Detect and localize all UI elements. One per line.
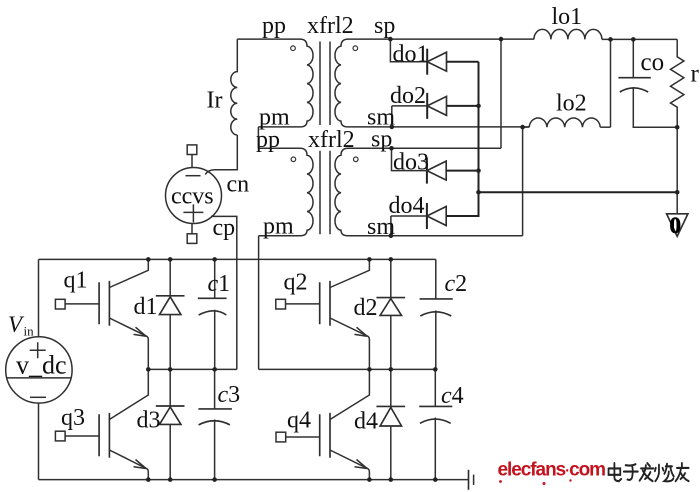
svg-text:ccvs: ccvs: [171, 184, 214, 210]
svg-text:V: V: [8, 312, 25, 337]
svg-text:d3: d3: [137, 408, 161, 434]
svg-text:do3: do3: [393, 149, 429, 175]
svg-text:cn: cn: [227, 171, 250, 197]
svg-text:do1: do1: [393, 41, 429, 67]
svg-text:pp: pp: [262, 13, 286, 39]
svg-text:c2: c2: [445, 271, 468, 297]
svg-text:cp: cp: [213, 215, 236, 241]
svg-text:d4: d4: [354, 409, 378, 435]
svg-text:c3: c3: [218, 382, 241, 408]
svg-text:lo1: lo1: [552, 4, 583, 30]
svg-text:co: co: [641, 49, 665, 76]
svg-text:lo2: lo2: [556, 90, 587, 116]
svg-text:pm: pm: [263, 213, 294, 239]
svg-text:do4: do4: [389, 193, 425, 219]
svg-text:q3: q3: [61, 405, 85, 431]
svg-text:c4: c4: [441, 383, 464, 409]
svg-text:xfrl2: xfrl2: [308, 127, 355, 153]
svg-text:q2: q2: [284, 270, 308, 296]
svg-text:v_dc: v_dc: [16, 351, 67, 380]
svg-text:do2: do2: [390, 83, 426, 109]
svg-text:Ir: Ir: [207, 87, 223, 113]
svg-text:r: r: [691, 61, 700, 88]
svg-text:0: 0: [670, 213, 682, 238]
svg-text:xfrl2: xfrl2: [307, 13, 354, 39]
svg-text:in: in: [24, 324, 35, 339]
svg-text:d1: d1: [134, 294, 158, 320]
svg-text:sp: sp: [371, 126, 392, 152]
svg-text:q4: q4: [287, 408, 311, 434]
svg-text:sp: sp: [374, 13, 395, 39]
svg-text:pp: pp: [256, 127, 280, 153]
svg-text:q1: q1: [64, 267, 88, 293]
svg-text:d2: d2: [354, 295, 378, 321]
svg-text:c1: c1: [208, 271, 231, 297]
svg-text:elecfans·com: elecfans·com: [498, 460, 606, 481]
